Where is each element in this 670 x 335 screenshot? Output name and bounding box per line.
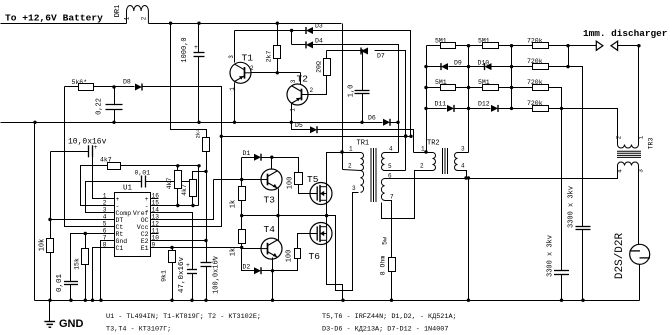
pin number 9 U1 bbox=[152, 241, 156, 248]
label U1 + bbox=[145, 196, 149, 203]
svg-text:2: 2 bbox=[616, 135, 623, 139]
svg-text:13: 13 bbox=[152, 213, 160, 220]
resistor 100 T5 bbox=[295, 173, 303, 185]
label U1 E2 bbox=[141, 238, 149, 245]
svg-text:T3: T3 bbox=[264, 195, 276, 206]
junction bbox=[48, 299, 51, 302]
pin number 12 U1 bbox=[152, 220, 160, 227]
svg-text:Gnd: Gnd bbox=[116, 238, 128, 245]
wire HV line left bbox=[392, 178, 467, 180]
label 2k7 bbox=[266, 51, 273, 63]
junction bbox=[360, 121, 363, 124]
svg-text:1mm. discharger: 1mm. discharger bbox=[583, 28, 667, 39]
svg-text:+: + bbox=[145, 196, 149, 203]
svg-text:D3: D3 bbox=[315, 23, 323, 30]
capacitor 3300x3kv A bbox=[554, 271, 569, 275]
wire D1 to T3 base bbox=[241, 158, 243, 187]
capacitor 3300x3kv B bbox=[576, 227, 591, 230]
svg-text:3: 3 bbox=[290, 79, 297, 83]
wire 20R riser bbox=[326, 51, 328, 59]
pin 10 U1 bbox=[150, 240, 159, 242]
junction bbox=[467, 86, 470, 89]
wire pin9 E1 to T4 base bbox=[159, 247, 242, 249]
op-amp U1 TL494 body bbox=[115, 193, 151, 257]
pin 2 TR1 bbox=[348, 163, 352, 170]
wire pin4 DT bbox=[51, 219, 108, 221]
wire row4 c bbox=[499, 108, 533, 110]
junction bbox=[467, 107, 470, 110]
spark gap electrode right bbox=[611, 41, 618, 50]
diode D3 bbox=[306, 27, 313, 34]
junction bbox=[240, 214, 243, 217]
wire TR1 pin5 stub bbox=[385, 170, 406, 172]
wire T3 base bbox=[214, 179, 261, 181]
junction bbox=[197, 22, 200, 25]
wire to TR3 pin1 bbox=[638, 46, 640, 145]
pin 16 U1 bbox=[150, 198, 159, 200]
wire HV line to TR3 pin4 bbox=[467, 166, 618, 179]
svg-text:T5: T5 bbox=[307, 174, 319, 185]
svg-text:D4: D4 bbox=[315, 38, 323, 45]
resistor 1k T4 bbox=[239, 230, 246, 244]
junction bbox=[424, 150, 427, 153]
label U1 Comp bbox=[116, 210, 132, 217]
junction bbox=[404, 135, 407, 138]
diode D7 bbox=[361, 48, 368, 55]
pin 3 U1 bbox=[108, 212, 115, 214]
wire C 1,0 top bbox=[362, 51, 364, 91]
pin 7 TR1 bbox=[390, 194, 394, 201]
pin 2 T1 bbox=[250, 65, 254, 72]
svg-text:7: 7 bbox=[390, 194, 394, 201]
svg-text:0,01: 0,01 bbox=[135, 170, 151, 177]
label U1 bbox=[123, 185, 133, 193]
pin 2 TR2 bbox=[420, 163, 424, 170]
junction bbox=[271, 269, 274, 272]
pin 1 TR1 bbox=[349, 146, 353, 153]
wire T1 collector riser bbox=[234, 31, 236, 63]
junction bbox=[169, 22, 172, 25]
svg-text:DT: DT bbox=[116, 217, 124, 224]
caption parts list line1 col2 bbox=[322, 313, 457, 321]
wire pin7 Gnd bbox=[101, 241, 108, 301]
wire D1 to gate R T5 bbox=[261, 158, 299, 173]
wire T2 emitter to D5 bbox=[292, 123, 311, 130]
wire TR2 pin4 to HV line bbox=[458, 171, 467, 179]
wire TR2 pin3 stub bbox=[458, 152, 469, 154]
label U1 Rt bbox=[116, 231, 124, 238]
svg-text:D1: D1 bbox=[243, 150, 251, 157]
wire TR3 pin3 to lamp bbox=[638, 166, 640, 245]
pin 3 T2 bbox=[290, 79, 297, 83]
svg-text:To +12,6V Battery: To +12,6V Battery bbox=[5, 13, 103, 24]
junction bbox=[48, 218, 51, 221]
wire pin15 line bbox=[159, 205, 199, 207]
resistor 5M1 r1b bbox=[483, 43, 499, 49]
wire 1k T3 bottom bbox=[241, 201, 243, 216]
junction bbox=[204, 299, 207, 302]
junction bbox=[409, 135, 412, 138]
svg-text:5M1: 5M1 bbox=[478, 37, 490, 44]
label T1 bbox=[242, 53, 254, 64]
svg-text:20Ω: 20Ω bbox=[316, 61, 323, 73]
pin 8 U1 bbox=[108, 247, 115, 249]
svg-text:12: 12 bbox=[152, 220, 160, 227]
wire D4 left bbox=[292, 44, 307, 46]
wire row4 to TR3 pin2 bbox=[549, 109, 618, 145]
wire discharger right bbox=[618, 45, 639, 47]
wire 4k7B bottom bbox=[192, 197, 194, 206]
junction bbox=[566, 65, 569, 68]
svg-text:5: 5 bbox=[388, 163, 392, 170]
winding TR1 2-3 bbox=[361, 171, 364, 193]
label 720k r4 bbox=[527, 100, 543, 107]
pin 1 DR1 bbox=[124, 16, 131, 20]
spark gap electrode left bbox=[596, 41, 603, 50]
svg-text:U1: U1 bbox=[123, 185, 133, 193]
svg-text:1000,0: 1000,0 bbox=[181, 37, 189, 62]
wire T3 emitter T4 collector bbox=[278, 189, 280, 241]
wire row3 a bbox=[427, 87, 441, 89]
label 100 T5 bbox=[287, 177, 295, 190]
wire R 2k4 to C 100,0 bbox=[206, 152, 208, 263]
resistor 2k7 bbox=[274, 46, 281, 59]
winding TR3 4-3 bbox=[618, 162, 639, 165]
pin number 13 U1 bbox=[152, 213, 160, 220]
junction bbox=[424, 107, 427, 110]
svg-text:T3,T4 - КТ3107Г;: T3,T4 - КТ3107Г; bbox=[106, 326, 171, 334]
pin 2 U1 bbox=[108, 205, 115, 207]
junction bbox=[112, 121, 115, 124]
pin 15 U1 bbox=[150, 205, 159, 207]
wire 9k1 to gnd rail bbox=[172, 263, 174, 301]
junction bbox=[424, 65, 427, 68]
label T2 bbox=[297, 74, 309, 85]
junction bbox=[276, 71, 279, 74]
wire C3300 A to gnd rail bbox=[561, 275, 563, 301]
junction bbox=[390, 299, 393, 302]
wire D6 out bbox=[391, 122, 399, 124]
label 5M1 r3b bbox=[478, 79, 490, 86]
resistor 9k1 bbox=[169, 251, 176, 263]
wire 2k7 top bbox=[277, 24, 279, 46]
label 1000,0 bbox=[181, 37, 189, 62]
pin 1 TR2 bbox=[421, 146, 425, 153]
svg-text:Ct: Ct bbox=[116, 224, 124, 231]
wire row4 a bbox=[427, 108, 447, 110]
pin 2 DR1 bbox=[141, 16, 148, 20]
resistor 720k r1 bbox=[533, 43, 549, 49]
svg-text:2: 2 bbox=[141, 16, 148, 20]
svg-text:TR3: TR3 bbox=[648, 138, 655, 150]
transistor T6 bbox=[310, 223, 332, 245]
junction bbox=[176, 164, 179, 167]
svg-text:9k1: 9k1 bbox=[161, 270, 168, 282]
pin number 4 U1 bbox=[103, 214, 107, 221]
label 720k r2 bbox=[527, 58, 543, 65]
wire 8 Ohm to gnd rail bbox=[391, 272, 393, 301]
pin number 7 U1 bbox=[103, 235, 107, 242]
diode D12 bbox=[491, 105, 498, 112]
wire riser to pin15 bbox=[198, 166, 200, 206]
pin 3 T1 bbox=[228, 55, 235, 59]
wire D8 to bias drop bbox=[143, 87, 222, 137]
wire 1k T4 top bbox=[241, 216, 243, 230]
wire to 9k1 bbox=[172, 248, 174, 251]
svg-text:4k7: 4k7 bbox=[100, 157, 112, 164]
label 1k T3 bbox=[230, 200, 238, 208]
wire D3-D4 link bbox=[291, 31, 293, 45]
wire row4 b bbox=[455, 108, 491, 110]
wire rail to R 2k4 bbox=[171, 24, 207, 138]
pin 6 U1 bbox=[108, 233, 115, 235]
svg-text:D12: D12 bbox=[478, 100, 490, 107]
resistor 2k4 bbox=[203, 138, 210, 152]
wire T3 collector up bbox=[271, 158, 273, 169]
wire row1 c bbox=[499, 45, 533, 47]
label 4k7 B bbox=[181, 184, 188, 196]
junction bbox=[581, 299, 584, 302]
pin 14 U1 bbox=[150, 212, 159, 214]
wire T2 out to 20R bbox=[309, 76, 327, 95]
label D10 bbox=[478, 60, 490, 67]
svg-text:D7: D7 bbox=[377, 53, 385, 60]
svg-text:5M1: 5M1 bbox=[478, 79, 490, 86]
label D5 bbox=[295, 122, 303, 129]
label U1 + bbox=[116, 196, 120, 203]
svg-text:3: 3 bbox=[352, 185, 356, 192]
junction bbox=[290, 121, 293, 124]
wire T1 out to T2 base bbox=[251, 72, 301, 74]
svg-text:4k7: 4k7 bbox=[166, 178, 173, 190]
junction bbox=[91, 299, 94, 302]
label D8 bbox=[123, 79, 131, 86]
label DR1 bbox=[114, 5, 122, 18]
label 4k7 A bbox=[166, 178, 173, 190]
resistor 4k7 A bbox=[175, 171, 182, 189]
junction bbox=[467, 44, 470, 47]
junction bbox=[270, 156, 273, 159]
wire 4k7A top bbox=[177, 166, 179, 171]
label 720k r3 bbox=[527, 79, 543, 86]
wire C 1,0 bottom bbox=[362, 94, 364, 123]
wire row2 b bbox=[449, 66, 485, 68]
svg-text:3: 3 bbox=[461, 146, 465, 153]
pin number 3 U1 bbox=[103, 207, 107, 214]
svg-text:DR1: DR1 bbox=[114, 5, 122, 18]
polarity + 100,0 bbox=[212, 257, 216, 264]
wire pin13 OC to T3 base bbox=[159, 180, 214, 220]
wire 1k T4 bottom bbox=[241, 244, 243, 248]
svg-text:15k: 15k bbox=[74, 258, 81, 270]
svg-text:3300 x 3kv: 3300 x 3kv bbox=[568, 186, 576, 228]
svg-text:C1: C1 bbox=[116, 245, 124, 252]
wire D2 to T4 emitter bbox=[261, 270, 273, 272]
pin 7 U1 bbox=[108, 240, 115, 242]
junction bbox=[510, 86, 513, 89]
resistor 720k r4 bbox=[533, 106, 549, 112]
wire mid rail bbox=[1, 122, 363, 124]
pin number 10 U1 bbox=[152, 234, 160, 241]
svg-text:D6: D6 bbox=[368, 115, 376, 122]
wire row2 to C3300 b bbox=[549, 67, 583, 227]
resistor 5M1 r1a bbox=[441, 43, 456, 49]
label 5M1 r1b bbox=[478, 37, 490, 44]
capacitor 0,01 comp bbox=[142, 176, 146, 188]
junction bbox=[467, 65, 470, 68]
wire D3 to right drop bbox=[313, 31, 411, 137]
svg-text:5M1: 5M1 bbox=[435, 37, 447, 44]
svg-text:TR1: TR1 bbox=[357, 140, 370, 148]
svg-text:+: + bbox=[94, 144, 98, 151]
junction bbox=[637, 44, 640, 47]
label 0,01 timing bbox=[56, 274, 64, 293]
diode D8 bbox=[135, 84, 142, 91]
wire C 10,0 right bbox=[92, 151, 94, 153]
wire multiplier bus x568 bbox=[568, 46, 570, 67]
svg-text:5w: 5w bbox=[382, 237, 389, 245]
transistor T1 bbox=[230, 62, 251, 83]
svg-text:T6: T6 bbox=[309, 251, 321, 262]
core TR1 bbox=[371, 148, 376, 202]
wire pin8 C1 bbox=[93, 248, 108, 301]
junction bbox=[271, 299, 274, 302]
pin number 11 U1 bbox=[152, 227, 160, 234]
svg-text:1: 1 bbox=[290, 108, 297, 112]
svg-text:4: 4 bbox=[617, 169, 624, 173]
wire T6 source to gnd rail bbox=[327, 241, 343, 301]
junction bbox=[204, 170, 207, 173]
resistor 15k bbox=[82, 249, 89, 265]
wire multiplier left bus bbox=[426, 46, 428, 153]
capacitor 0,22 bbox=[106, 105, 123, 110]
label D2 bbox=[243, 264, 251, 271]
resistor 20R bbox=[324, 59, 331, 76]
svg-text:1: 1 bbox=[349, 146, 353, 153]
label 3300 x 3kv A bbox=[547, 235, 555, 277]
wire D4 to TR1 pin4 bbox=[313, 45, 399, 153]
winding TR1 6-7 bbox=[381, 179, 384, 201]
label 47,0x16v bbox=[178, 257, 186, 294]
diode D6 bbox=[383, 119, 390, 126]
pin number 5 U1 bbox=[103, 221, 107, 228]
junction bbox=[360, 49, 363, 52]
junction bbox=[69, 299, 72, 302]
wire C 10,0 left bbox=[51, 151, 89, 153]
diode D11 bbox=[447, 105, 454, 112]
wire +12V rail left bbox=[1, 23, 127, 25]
junction bbox=[290, 29, 293, 32]
junction bbox=[510, 65, 513, 68]
resistor 100 T6 bbox=[295, 249, 301, 259]
svg-text:100: 100 bbox=[287, 177, 295, 190]
wire 4k7B top riser bbox=[193, 172, 207, 180]
label T6 bbox=[309, 251, 321, 262]
label GND bbox=[59, 318, 84, 330]
label D6 bbox=[368, 115, 376, 122]
wire row1 b bbox=[456, 45, 483, 47]
wire 4k7 line bbox=[121, 165, 199, 167]
svg-text:D9: D9 bbox=[454, 60, 462, 67]
label 1k T4 bbox=[230, 248, 238, 256]
svg-text:D10: D10 bbox=[478, 60, 490, 67]
diode D9 bbox=[441, 63, 448, 70]
wire pin6 Rt bbox=[71, 234, 108, 282]
winding TR2 1-2 bbox=[433, 153, 436, 171]
svg-text:2: 2 bbox=[250, 65, 254, 72]
pin 2 TR3 bbox=[616, 135, 623, 139]
svg-text:2k4: 2k4 bbox=[196, 129, 202, 139]
svg-text:0,22: 0,22 bbox=[96, 98, 104, 115]
label U1 E1 bbox=[141, 245, 149, 252]
svg-text:2k7: 2k7 bbox=[266, 51, 273, 63]
svg-text:5M1: 5M1 bbox=[435, 79, 447, 86]
wire T5 drain bbox=[327, 153, 343, 187]
label 720k r1 bbox=[527, 37, 543, 44]
transistor T4 bbox=[261, 238, 282, 259]
polarity + 47,0 bbox=[186, 262, 190, 269]
svg-text:11: 11 bbox=[152, 227, 160, 234]
label 100,0x16v bbox=[213, 256, 221, 294]
junction bbox=[341, 299, 344, 302]
junction bbox=[176, 204, 179, 207]
wire lamp to gnd rail bbox=[639, 265, 641, 301]
wire T1 collector to D3 bbox=[235, 30, 307, 32]
svg-text:9: 9 bbox=[152, 241, 156, 248]
junction bbox=[467, 176, 470, 179]
wire TR1 pin4 stub bbox=[385, 152, 399, 154]
pin 4 TR2 bbox=[461, 163, 465, 170]
label U1 C2 bbox=[141, 231, 149, 238]
core TR2 bbox=[443, 148, 448, 174]
wire TR1 pin6 stub bbox=[385, 178, 392, 180]
label T5 bbox=[307, 174, 319, 185]
wire emitter junction line bbox=[242, 215, 336, 217]
junction bbox=[560, 107, 563, 110]
wire pin1 to divider bbox=[93, 152, 108, 199]
pin 5 TR1 bbox=[388, 163, 392, 170]
svg-text:Vref: Vref bbox=[133, 210, 149, 217]
svg-text:+: + bbox=[194, 44, 198, 51]
svg-text:GND: GND bbox=[59, 318, 84, 330]
wire C100 to gnd rail bbox=[206, 267, 208, 301]
svg-text:TR2: TR2 bbox=[427, 140, 440, 148]
junction bbox=[396, 121, 399, 124]
wire 15k to gnd rail bbox=[85, 265, 87, 301]
junction bbox=[84, 299, 87, 302]
resistor 4k7 B bbox=[190, 180, 197, 197]
wire timing node to pin5 Ct bbox=[65, 87, 108, 227]
wire +12V to TR1 center tap bbox=[342, 24, 344, 170]
diode D4 bbox=[306, 41, 313, 48]
label 10,0x16v bbox=[68, 138, 107, 147]
label To +12,6V Battery bbox=[5, 13, 103, 24]
pin 2 T2 bbox=[310, 87, 314, 94]
label U1 Vref bbox=[133, 210, 149, 217]
winding TR1 4-5 bbox=[382, 153, 385, 171]
svg-text:8 Ohm: 8 Ohm bbox=[380, 256, 387, 276]
label D3 bbox=[315, 23, 323, 30]
wire divider mid bbox=[50, 152, 52, 239]
svg-text:Vcc: Vcc bbox=[137, 224, 149, 231]
wire 2k7 bottom bbox=[277, 59, 279, 73]
svg-text:1k: 1k bbox=[230, 248, 238, 256]
transistor T3 bbox=[261, 169, 282, 190]
svg-text:-: - bbox=[145, 203, 149, 210]
label 4k7 bbox=[100, 157, 112, 164]
wire left drop to gnd rail bbox=[34, 123, 36, 301]
label U1 OC bbox=[141, 217, 149, 224]
